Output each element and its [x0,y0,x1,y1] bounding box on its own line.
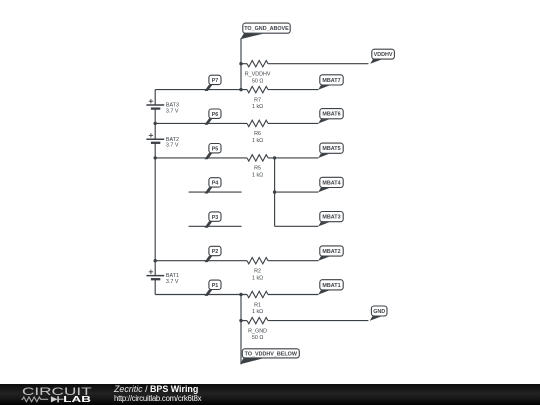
resistor R1 [247,291,268,297]
junction P2 tap [154,259,157,262]
net flag MBAT6 [318,109,343,124]
junction R5 right [273,156,276,159]
svg-text:P6: P6 [212,112,219,118]
footer url text [114,394,201,403]
wire [154,158,156,261]
resistor R_GND [247,317,268,323]
svg-text:1 kΩ: 1 kΩ [252,309,263,315]
wire [275,225,319,227]
CircuitLab logo [21,385,117,405]
label R_GND value [248,328,267,341]
svg-text:R2: R2 [254,269,261,275]
resistor R6 [247,120,268,126]
battery BAT3 3.7 V [146,90,179,124]
net flag MBAT7 [318,75,343,90]
net flag TO_GND_ABOVE [240,23,290,39]
junction MBAT4 tap [273,190,276,193]
net flag TO_VDDHV_BELOW [240,349,299,365]
net flag VDDHV [370,49,394,64]
wire [268,294,318,296]
junction R_VDDHV left [239,62,242,65]
svg-text:P2: P2 [212,249,219,255]
svg-text:LAB: LAB [63,394,91,404]
svg-text:R7: R7 [254,97,261,103]
wire [268,63,368,65]
svg-text:MBAT3: MBAT3 [322,215,340,221]
svg-text:P4: P4 [212,181,219,187]
label R2 value [252,269,263,282]
svg-text:MBAT7: MBAT7 [322,78,340,84]
wire [241,63,247,65]
net flag MBAT5 [318,143,343,158]
label R5 value [252,166,263,179]
label R_VDDHV value [245,72,271,85]
pin flag P7 [205,75,222,91]
svg-text:MBAT1: MBAT1 [322,283,340,289]
svg-text:TO_VDDHV_BELOW: TO_VDDHV_BELOW [245,351,298,357]
wire [155,260,247,262]
pin flag P1 [205,280,222,296]
label R6 value [252,131,263,144]
net flag GND [370,306,387,321]
svg-text:1 kΩ: 1 kΩ [252,104,263,110]
svg-text:1 kΩ: 1 kΩ [252,173,263,179]
svg-text:MBAT6: MBAT6 [322,112,340,118]
wire [268,320,368,322]
pin flag P3 [205,212,222,228]
wire [240,38,242,89]
pin flag P6 [205,109,222,125]
net flag MBAT4 [318,177,343,192]
wire [274,158,276,226]
wire [268,89,318,91]
svg-text:MBAT2: MBAT2 [322,249,340,255]
svg-text:50 Ω: 50 Ω [252,78,264,84]
battery BAT2 3.7 V [146,123,179,157]
wire [155,89,247,91]
wire [241,320,247,322]
label R1 value [252,302,263,315]
svg-text:R_GND: R_GND [248,328,267,334]
svg-text:P7: P7 [212,78,219,84]
battery BAT1 3.7 V [146,261,179,295]
wire [155,157,247,159]
resistor R_VDDHV [247,61,268,67]
svg-text:50 Ω: 50 Ω [252,335,264,341]
wire [275,191,319,193]
wire [268,157,318,159]
resistor R7 [247,86,268,92]
svg-text:GND: GND [373,309,385,315]
net flag MBAT3 [318,212,343,227]
svg-text:R5: R5 [254,166,261,172]
svg-text:MBAT5: MBAT5 [322,146,340,152]
wire [189,191,242,193]
resistor R5 [247,155,268,161]
svg-text:R1: R1 [254,302,261,308]
junction BAT3-BAT2 [154,122,157,125]
footer title text [114,385,198,394]
svg-text:1 kΩ: 1 kΩ [252,275,263,281]
svg-text:3.7 V: 3.7 V [166,108,179,114]
wire [155,294,247,296]
wire [240,295,242,365]
wire [189,225,242,227]
wire [268,260,318,262]
svg-text:R6: R6 [254,131,261,137]
svg-text:R_VDDHV: R_VDDHV [245,72,271,78]
junction R7 node [239,88,242,91]
junction R1 node [239,293,242,296]
pin flag P5 [205,144,222,160]
wire [155,122,247,124]
svg-text:P5: P5 [212,146,219,152]
svg-text:1 kΩ: 1 kΩ [252,138,263,144]
label R7 value [252,97,263,110]
svg-text:P1: P1 [212,283,219,289]
pin flag P2 [205,246,222,262]
svg-text:TO_GND_ABOVE: TO_GND_ABOVE [244,26,289,32]
svg-text:3.7 V: 3.7 V [166,143,179,149]
svg-text:P3: P3 [212,215,219,221]
svg-text:MBAT4: MBAT4 [322,180,340,186]
resistor R2 [247,258,268,264]
wire [268,122,318,124]
footer bar [0,384,540,405]
net flag MBAT1 [318,280,343,295]
junction R_GND node [239,319,242,322]
svg-text:3.7 V: 3.7 V [166,279,179,285]
junction BAT2 bottom [154,156,157,159]
svg-text:VDDHV: VDDHV [374,52,393,58]
pin flag P4 [205,178,222,194]
net flag MBAT2 [318,246,343,261]
